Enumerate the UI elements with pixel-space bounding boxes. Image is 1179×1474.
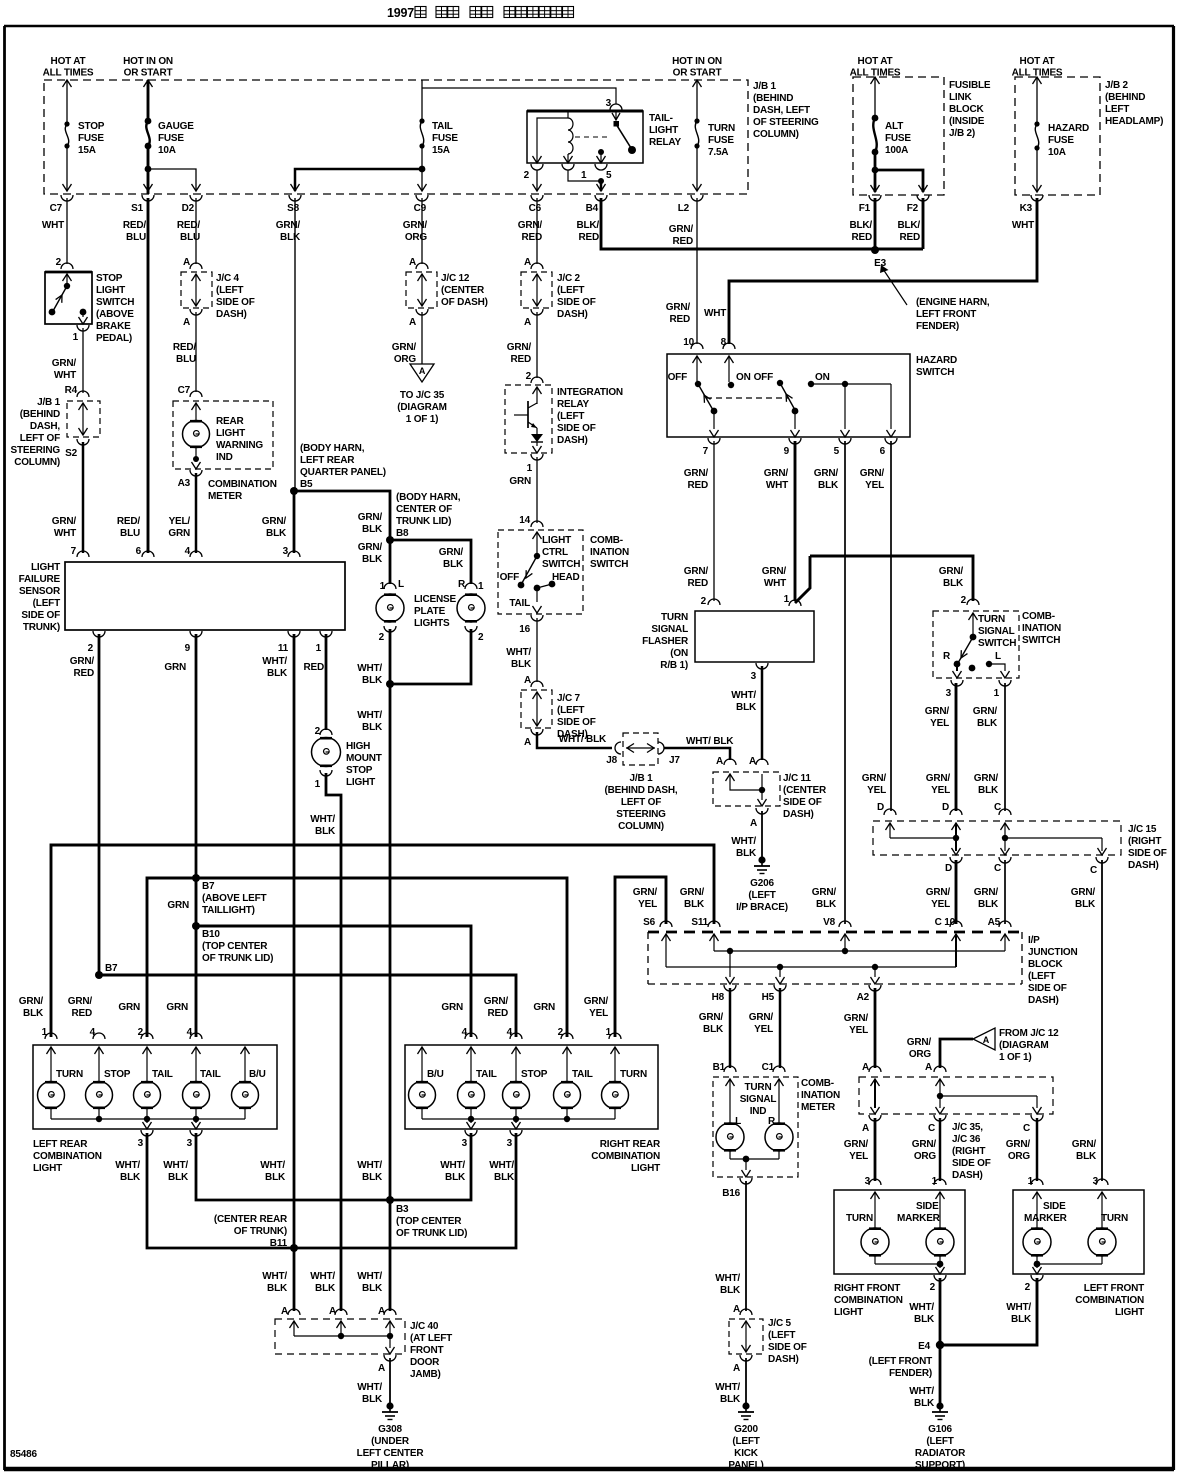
svg-text:FENDER): FENDER) xyxy=(916,321,959,332)
lamp LEFT REAR TURN xyxy=(38,1082,65,1109)
wire tail fuse feed xyxy=(421,80,423,121)
connector A into J/C35 (left) xyxy=(869,1066,881,1072)
svg-text:1 OF 1): 1 OF 1) xyxy=(999,1052,1032,1063)
svg-text:KICK: KICK xyxy=(734,1448,759,1459)
svg-text:HOT IN ON: HOT IN ON xyxy=(672,56,722,67)
pin A label (J/C35 right) xyxy=(925,1062,932,1073)
left rear lamp feeds xyxy=(47,1047,250,1082)
light ctrl switch internals xyxy=(518,532,556,613)
label LIGHT CTRL SWITCH xyxy=(542,535,580,570)
svg-text:FLASHER: FLASHER xyxy=(642,636,689,647)
wire tail fuse to relay pin 3 xyxy=(422,88,616,104)
relay pin 2 internal arrow xyxy=(533,155,542,163)
off-page triangle TO J/C 35 xyxy=(410,364,434,382)
lamp LEFT REAR STOP xyxy=(86,1082,113,1109)
J/C 12 internal arrows xyxy=(418,274,427,306)
label GRN/RED (C6 wire) xyxy=(507,342,532,365)
svg-text:HAZARD: HAZARD xyxy=(1048,123,1089,134)
svg-text:R: R xyxy=(768,1116,776,1127)
svg-text:B16: B16 xyxy=(722,1188,740,1199)
label G200 LEFT KICK PANEL xyxy=(728,1424,763,1471)
svg-text:(CENTER: (CENTER xyxy=(783,785,827,796)
wire J7 to J/C 11 xyxy=(664,748,730,760)
svg-text:PLATE: PLATE xyxy=(414,606,446,617)
wire B8 to L license lamp xyxy=(389,540,392,584)
right front ground bus xyxy=(875,1256,945,1274)
svg-text:GRN/: GRN/ xyxy=(484,996,509,1007)
label HOT AT ALL TIMES (alt fuse) xyxy=(850,56,901,79)
label R (license) xyxy=(458,579,466,590)
svg-text:TURN: TURN xyxy=(978,614,1005,625)
label WHT/BLK (sensor 11) xyxy=(262,656,288,679)
svg-text:16: 16 xyxy=(519,624,530,635)
svg-text:TURN: TURN xyxy=(620,1069,647,1080)
label GRN/RED (pin7 lower) xyxy=(684,566,709,589)
svg-text:TRUNK): TRUNK) xyxy=(23,622,60,633)
junction license lamp returns xyxy=(386,680,394,688)
svg-text:LIGHT: LIGHT xyxy=(31,562,60,573)
connector A below J/C7 xyxy=(524,729,543,748)
svg-text:JUNCTION: JUNCTION xyxy=(1028,947,1078,958)
svg-text:ORG: ORG xyxy=(914,1151,937,1162)
label GRN (RR tail 2) xyxy=(533,1002,555,1013)
pin 3 right front xyxy=(865,1176,881,1187)
svg-text:C6: C6 xyxy=(529,203,542,214)
svg-text:FUSE: FUSE xyxy=(78,133,104,144)
svg-text:(BODY HARN,: (BODY HARN, xyxy=(300,443,365,454)
wire turn switch L to J/C15 xyxy=(1004,683,1006,811)
connector A into J/C40 (1) xyxy=(288,1309,300,1315)
label J/C 15 xyxy=(1128,824,1167,871)
svg-text:PANEL): PANEL) xyxy=(728,1460,763,1471)
turn signal switch internals xyxy=(953,613,1010,678)
svg-text:10: 10 xyxy=(683,337,694,348)
svg-text:STEERING: STEERING xyxy=(10,445,60,456)
wire C to LF side marker xyxy=(1036,1118,1039,1181)
svg-text:GRN/: GRN/ xyxy=(1072,1139,1097,1150)
label GRN/WHT (lower) xyxy=(52,516,77,539)
label B8 BODY HARN CENTER OF TRUNK LID xyxy=(396,492,461,539)
svg-text:4: 4 xyxy=(187,1027,193,1038)
sensor U4 LIGHT FAILURE SENSOR box xyxy=(65,562,345,630)
svg-text:SIDE OF: SIDE OF xyxy=(557,297,596,308)
junction connector J/C 40 (dashed) xyxy=(275,1319,405,1354)
label GRN (integration out) xyxy=(509,476,531,487)
svg-text:(BEHIND: (BEHIND xyxy=(20,409,60,420)
svg-text:9: 9 xyxy=(784,446,790,457)
label J/C 12 xyxy=(441,273,488,308)
svg-text:J/B 2): J/B 2) xyxy=(949,128,975,139)
svg-text:(AT LEFT: (AT LEFT xyxy=(410,1333,452,1344)
wire J/C5 to G200 xyxy=(745,1358,747,1404)
svg-text:FUSE: FUSE xyxy=(1048,135,1074,146)
svg-text:WHT/: WHT/ xyxy=(440,1160,465,1171)
wire pin16 to J/C 7 xyxy=(536,618,538,682)
label GRN/YEL (C10 wire) xyxy=(926,887,951,910)
svg-text:B/U: B/U xyxy=(427,1069,444,1080)
svg-text:GRN/: GRN/ xyxy=(439,547,464,558)
svg-text:FUSE: FUSE xyxy=(432,133,458,144)
svg-text:COMBINATION: COMBINATION xyxy=(208,479,277,490)
svg-text:BLK: BLK xyxy=(265,1172,286,1183)
svg-text:YEL: YEL xyxy=(638,899,657,910)
connector L2 xyxy=(669,195,703,247)
right rear lamp feeds xyxy=(418,1047,620,1082)
svg-text:TURN: TURN xyxy=(56,1069,83,1080)
lamp RIGHT REAR TURN xyxy=(602,1082,629,1109)
svg-text:LEFT REAR: LEFT REAR xyxy=(300,455,355,466)
svg-text:A: A xyxy=(862,1062,869,1073)
lamp unit LEFT FRONT COMBINATION LIGHT box xyxy=(1013,1190,1144,1274)
connector pin 3 right rear (1) xyxy=(462,1130,477,1149)
connector C below J/C35 (mid) xyxy=(928,1115,946,1134)
svg-text:GRN/: GRN/ xyxy=(52,358,77,369)
label GRN/BLK (H8) xyxy=(699,1012,724,1035)
svg-text:FUSE: FUSE xyxy=(158,133,184,144)
svg-text:FENDER): FENDER) xyxy=(889,1368,932,1379)
svg-text:(BEHIND: (BEHIND xyxy=(753,93,793,104)
svg-text:(LEFT FRONT: (LEFT FRONT xyxy=(869,1356,932,1367)
lamp LICENSE PLATE LIGHT R xyxy=(457,594,485,622)
label SIDE MARKER (LF) xyxy=(1024,1201,1068,1224)
svg-text:HEAD: HEAD xyxy=(552,572,580,583)
svg-text:J7: J7 xyxy=(669,755,680,766)
svg-text:SIDE OF: SIDE OF xyxy=(557,423,596,434)
junction connector J/C 5 (dashed) xyxy=(729,1319,763,1354)
connector pin 1 stop light switch xyxy=(73,325,89,343)
svg-text:ORG: ORG xyxy=(909,1049,932,1060)
svg-text:C: C xyxy=(994,863,1001,874)
label HAZARD SWITCH xyxy=(916,355,957,378)
svg-text:1: 1 xyxy=(316,643,322,654)
svg-text:1: 1 xyxy=(527,463,533,474)
svg-text:DASH): DASH) xyxy=(783,809,814,820)
label GRN/WHT (pin9 upper) xyxy=(764,468,789,491)
wire branch to F2 xyxy=(875,170,928,192)
label TURN SIGNAL SWITCH (inside) xyxy=(978,614,1016,649)
label C7 (meter in) xyxy=(178,385,191,396)
label WHT/BLK (B3 out) xyxy=(357,1271,383,1294)
right rear ground bus xyxy=(422,1109,615,1129)
svg-text:C: C xyxy=(1090,865,1097,876)
svg-text:(ABOVE LEFT: (ABOVE LEFT xyxy=(202,893,267,904)
left front lamp feeds xyxy=(1033,1192,1107,1229)
svg-text:J/B 1: J/B 1 xyxy=(37,397,61,408)
svg-text:ON: ON xyxy=(815,372,830,383)
svg-text:SIDE OF: SIDE OF xyxy=(768,1342,807,1353)
label GRN/ORG (C9 wire) xyxy=(392,342,417,365)
junction connector J/C 7 (dashed) xyxy=(521,690,552,728)
label STOP (RR) xyxy=(521,1069,548,1080)
wire GRN/BLK left-turn net xyxy=(51,845,714,1037)
connector C1 xyxy=(773,1066,785,1072)
junction E4 xyxy=(918,1341,944,1352)
wire turn switch R to J/C15 xyxy=(955,683,958,811)
wire high mount to J/C40 xyxy=(326,773,341,1311)
svg-text:A: A xyxy=(749,756,756,767)
label WHT/BLK (LR 3b) xyxy=(163,1160,189,1183)
svg-text:METER: METER xyxy=(208,491,243,502)
label S8 GRN/BLK mid xyxy=(262,516,287,539)
label OFF (hazard 2) xyxy=(754,372,773,383)
svg-text:HEADLAMP): HEADLAMP) xyxy=(1105,116,1163,127)
svg-text:LEFT REAR: LEFT REAR xyxy=(33,1139,88,1150)
svg-text:SIGNAL: SIGNAL xyxy=(978,626,1015,637)
connector pin 7 hazard xyxy=(703,438,720,457)
hazard switch pole 2 xyxy=(777,380,800,437)
connector D2 xyxy=(177,195,202,243)
svg-text:SIDE OF: SIDE OF xyxy=(952,1158,991,1169)
label LEFT REAR COMBINATION LIGHT xyxy=(33,1139,102,1174)
label D (J/C15 left) xyxy=(877,802,884,813)
svg-text:JAMB): JAMB) xyxy=(410,1369,441,1380)
svg-text:WHT: WHT xyxy=(42,220,64,231)
label COMB-INATION SWITCH (turn) xyxy=(1022,611,1061,646)
svg-text:IND: IND xyxy=(750,1106,767,1117)
power arrow into B+ (stop fuse) xyxy=(63,80,72,87)
label WHT/BLK (flasher out) xyxy=(731,690,757,713)
svg-text:(LEFT: (LEFT xyxy=(33,598,60,609)
connector C7 xyxy=(42,195,73,231)
svg-text:OR START: OR START xyxy=(124,68,173,79)
label REAR LIGHT WARNING IND xyxy=(216,416,263,463)
label GRN/BLK (A5 wire) xyxy=(974,887,999,910)
svg-text:(LEFT: (LEFT xyxy=(557,705,584,716)
connector pin 1 integration relay xyxy=(527,454,543,474)
svg-text:11: 11 xyxy=(278,643,289,654)
svg-text:TAIL: TAIL xyxy=(509,598,530,609)
svg-text:GRN/: GRN/ xyxy=(844,1013,869,1024)
svg-text:BLK: BLK xyxy=(736,702,757,713)
svg-text:RED/: RED/ xyxy=(117,516,141,527)
connector A below J/C4 xyxy=(183,309,202,328)
svg-text:LEFT OF: LEFT OF xyxy=(621,797,661,808)
svg-text:A: A xyxy=(524,317,531,328)
svg-text:RED: RED xyxy=(303,662,324,673)
svg-text:J/C 5: J/C 5 xyxy=(768,1318,792,1329)
svg-text:OF TRUNK LID): OF TRUNK LID) xyxy=(396,1228,467,1239)
wire branch to D2 xyxy=(148,169,201,191)
pin 8 hazard switch xyxy=(721,337,735,349)
label B/U (LR) xyxy=(249,1069,266,1080)
lamp REAR LIGHT WARNING IND xyxy=(183,421,210,448)
svg-text:GRN: GRN xyxy=(168,528,190,539)
label WHT/BLK (license wire) xyxy=(357,1160,383,1183)
svg-text:J/B 1: J/B 1 xyxy=(753,81,777,92)
lamp unit LEFT REAR COMBINATION LIGHT box xyxy=(33,1045,277,1129)
title text 1997 Toyota Camry exterior lamp circuit diagram xyxy=(387,6,574,20)
svg-text:WHT: WHT xyxy=(766,480,788,491)
svg-text:F1: F1 xyxy=(859,203,871,214)
junction B10 xyxy=(192,922,200,930)
wire sensor 9 down xyxy=(195,634,198,878)
hazard switch ON contact 2 xyxy=(808,381,896,437)
label WHT/BLK (tail out) xyxy=(506,647,532,670)
wire S2 to sensor pin 7 xyxy=(82,442,85,553)
connector F2 xyxy=(897,195,929,243)
label WHT/BLK (high mount to J/C40) xyxy=(310,1271,336,1294)
svg-text:DASH): DASH) xyxy=(1128,860,1159,871)
svg-text:GRN: GRN xyxy=(509,476,531,487)
svg-text:A: A xyxy=(716,756,723,767)
svg-text:FRONT: FRONT xyxy=(410,1345,444,1356)
svg-text:J/C 36: J/C 36 xyxy=(952,1134,981,1145)
svg-text:(LEFT: (LEFT xyxy=(1028,971,1055,982)
svg-text:TAIL: TAIL xyxy=(432,121,453,132)
diagram number 85486 xyxy=(10,1449,37,1460)
label RED/BLU (D2 wire) xyxy=(173,342,197,365)
svg-text:(ABOVE: (ABOVE xyxy=(96,309,134,320)
svg-text:BLK: BLK xyxy=(978,899,999,910)
svg-text:4: 4 xyxy=(462,1027,468,1038)
switch S1 STOP LIGHT SWITCH box xyxy=(45,272,92,324)
label C 10 xyxy=(935,917,956,928)
pin 2 turn signal switch xyxy=(961,595,979,606)
svg-text:COLUMN): COLUMN) xyxy=(618,821,664,832)
svg-text:SIDE OF: SIDE OF xyxy=(1128,848,1167,859)
svg-text:STOP: STOP xyxy=(104,1069,131,1080)
svg-text:LIGHT: LIGHT xyxy=(631,1163,660,1174)
connector A into J/C11 (right) xyxy=(756,759,768,765)
svg-text:WHT/: WHT/ xyxy=(909,1386,934,1397)
svg-text:BLK: BLK xyxy=(267,1283,288,1294)
label GRN (RR tail 1) xyxy=(441,1002,463,1013)
label GRN (LR tail 2) xyxy=(166,1002,188,1013)
connector A2 xyxy=(857,985,881,1003)
svg-text:YEL/: YEL/ xyxy=(169,516,191,527)
fuse HAZARD FUSE 10A xyxy=(1034,121,1089,158)
svg-text:A3: A3 xyxy=(178,478,191,489)
label INTEGRATION RELAY xyxy=(557,387,623,446)
svg-text:REAR: REAR xyxy=(216,416,245,427)
svg-text:WHT/: WHT/ xyxy=(357,710,382,721)
svg-text:WHT/: WHT/ xyxy=(357,1382,382,1393)
svg-text:WHT/: WHT/ xyxy=(260,1160,285,1171)
svg-text:J/C 12: J/C 12 xyxy=(441,273,470,284)
relay U2 INTEGRATION RELAY (dashed) xyxy=(505,385,552,453)
svg-text:2: 2 xyxy=(379,632,385,643)
svg-text:1: 1 xyxy=(994,688,1000,699)
svg-text:INATION: INATION xyxy=(590,547,629,558)
wire switch to R4 xyxy=(82,328,84,393)
wire K3 to hazard pin 8 xyxy=(729,198,1037,344)
label RIGHT REAR COMBINATION LIGHT xyxy=(591,1139,661,1174)
svg-text:BLK: BLK xyxy=(445,1172,466,1183)
label TAIL (LR 1) xyxy=(152,1069,173,1080)
label HOT IN ON OR START (gauge fuse) xyxy=(123,56,173,79)
label YEL/GRN xyxy=(168,516,190,539)
label GRN/BLK (above B8) xyxy=(358,512,383,535)
label LICENSE PLATE LIGHTS xyxy=(414,594,456,629)
label TURN (LR) xyxy=(56,1069,83,1080)
svg-text:COMB-: COMB- xyxy=(801,1078,834,1089)
svg-text:HIGH: HIGH xyxy=(346,741,370,752)
svg-text:WHT/: WHT/ xyxy=(115,1160,140,1171)
svg-text:1 OF 1): 1 OF 1) xyxy=(406,414,439,425)
pin A label (J/C5 top) xyxy=(733,1304,752,1315)
junction gauge fuse / D2 branch xyxy=(145,166,152,173)
svg-text:G308: G308 xyxy=(378,1424,402,1435)
svg-text:B4: B4 xyxy=(586,203,599,214)
svg-text:R4: R4 xyxy=(65,385,78,396)
wire J/C11 to G206 xyxy=(761,811,763,858)
svg-text:STEERING: STEERING xyxy=(616,809,666,820)
svg-text:RED: RED xyxy=(687,578,708,589)
svg-text:A: A xyxy=(524,257,531,268)
svg-text:J/C 11: J/C 11 xyxy=(783,773,811,784)
svg-text:COMBINATION: COMBINATION xyxy=(591,1151,660,1162)
E3 callout arrow xyxy=(880,265,907,305)
svg-text:BLK: BLK xyxy=(315,826,336,837)
label WHT/BLK (RR 3a) xyxy=(440,1160,466,1183)
svg-text:YEL: YEL xyxy=(931,899,950,910)
label RED/BLU (S1 wire) xyxy=(117,516,141,539)
wire C6 to J/C 2 xyxy=(536,198,538,264)
svg-text:BLK: BLK xyxy=(267,668,288,679)
connector A below J/C12 xyxy=(409,309,428,328)
svg-text:COMBINATION: COMBINATION xyxy=(834,1295,903,1306)
lamp RIGHT FRONT TURN xyxy=(861,1228,889,1256)
wire H8 to B1 xyxy=(729,988,732,1068)
wire GRN/YEL right-turn bracket xyxy=(615,877,666,1037)
connector pin 5 hazard xyxy=(834,438,851,457)
svg-text:(LEFT: (LEFT xyxy=(926,1436,953,1447)
svg-text:GRN/: GRN/ xyxy=(680,887,705,898)
svg-text:GRN/: GRN/ xyxy=(926,773,951,784)
svg-text:B5: B5 xyxy=(300,479,313,490)
label WHT (K3 wire) xyxy=(704,308,726,319)
label GRN/BLK (flasher to switch) xyxy=(939,566,964,589)
svg-text:BLK: BLK xyxy=(1076,1151,1097,1162)
svg-text:3: 3 xyxy=(187,1138,193,1149)
label ENGINE HARN LEFT FRONT FENDER xyxy=(916,297,990,332)
J/C 2 internal arrows xyxy=(533,274,542,306)
pin 2 flasher xyxy=(701,596,720,607)
connector H8 xyxy=(712,985,736,1003)
svg-text:B8: B8 xyxy=(396,528,409,539)
connector A into J/C11 (left) xyxy=(724,759,736,765)
label GRN/RED (L2 mid) xyxy=(666,302,691,325)
lamp RIGHT REAR TAIL 2 xyxy=(554,1082,581,1109)
svg-text:BLK: BLK xyxy=(736,848,757,859)
connector S2 xyxy=(65,439,89,459)
label TAIL (LR 2) xyxy=(200,1069,221,1080)
svg-text:A: A xyxy=(329,1306,336,1317)
svg-text:BLK: BLK xyxy=(703,1024,724,1035)
svg-text:TAIL: TAIL xyxy=(152,1069,173,1080)
junction B8 xyxy=(386,536,394,544)
svg-text:K3: K3 xyxy=(1020,203,1033,214)
label GRN/YEL (S6) xyxy=(633,887,658,910)
svg-text:COMBINATION: COMBINATION xyxy=(33,1151,102,1162)
label GRN/BLK (pin5 lower) xyxy=(812,887,837,910)
wire sensor 11 down xyxy=(293,634,296,1248)
pin A label (J/C35 left) xyxy=(862,1062,869,1073)
svg-text:LIGHT: LIGHT xyxy=(33,1163,62,1174)
wire flasher feed jog xyxy=(795,556,810,603)
svg-text:BLK: BLK xyxy=(977,718,998,729)
pin A label (J/C7 top) xyxy=(524,675,543,687)
svg-text:WHT/: WHT/ xyxy=(715,1273,740,1284)
svg-text:OR START: OR START xyxy=(673,68,722,79)
wire tail fuse to C9 xyxy=(418,146,427,191)
svg-text:3: 3 xyxy=(507,1138,513,1149)
wire B5 to B8 xyxy=(294,491,390,540)
svg-text:SWITCH: SWITCH xyxy=(978,638,1016,649)
svg-text:R/B 1): R/B 1) xyxy=(660,660,688,671)
svg-text:LIGHT: LIGHT xyxy=(216,428,245,439)
label B1 xyxy=(713,1062,726,1073)
